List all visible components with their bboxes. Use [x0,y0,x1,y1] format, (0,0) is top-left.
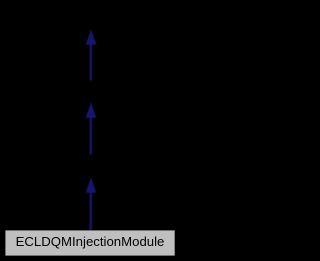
node ECLDQMInjectionModule (current class, grey box) [5,230,174,255]
inheritance arrow 1 (top, to PathElement node) [86,29,97,80]
inheritance arrow 2 (middle, to Module node) [86,102,97,154]
svg-text:ECLDQMInjectionModule: ECLDQMInjectionModule [16,234,165,249]
inheritance arrow 3 (bottom, to HistoModule node) [86,177,97,230]
